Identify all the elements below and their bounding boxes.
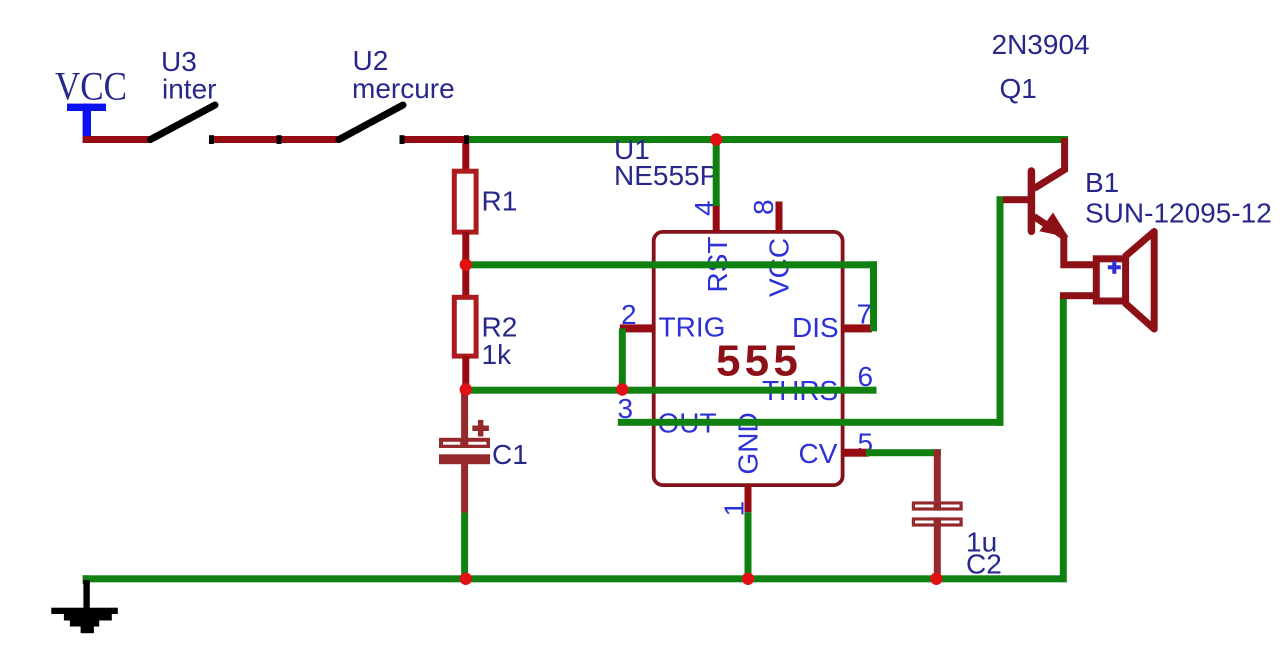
resistor R1 bottom lead (462, 232, 469, 265)
junction node R2-C1-THRS (460, 383, 472, 395)
pin 1 stub GND (745, 485, 752, 512)
svg-text:NE555P: NE555P (614, 160, 718, 191)
svg-text:VCC: VCC (55, 63, 127, 108)
wire DIS net (R1-R2 node to pin 7) (463, 261, 878, 268)
wire top rail green (R1 node to Q1 collector) (467, 136, 1068, 143)
svg-text:U3: U3 (161, 46, 197, 77)
wire top rail segment 1 (VCC to switch U3) (83, 136, 152, 143)
svg-text:C2: C2 (966, 549, 1002, 580)
wire ground corner nub (83, 575, 90, 584)
junction node pin4-VCC rail (710, 133, 722, 145)
capacitor C1 top plate (439, 438, 490, 448)
svg-text:TRIG: TRIG (659, 312, 726, 343)
capacitor C2 top plate (912, 501, 963, 510)
svg-text:R2: R2 (482, 312, 518, 343)
pin 4 stub (713, 204, 720, 232)
transistor Q1 emitter (1034, 217, 1094, 265)
junction node C1-ground rail (460, 573, 472, 585)
svg-text:Q1: Q1 (1000, 73, 1037, 104)
capacitor C1 bottom plate (439, 454, 490, 464)
svg-text:8: 8 (748, 199, 779, 215)
svg-text:1k: 1k (482, 339, 513, 370)
speaker B1 polarity plus (1108, 265, 1121, 269)
wire junction pin at R1 node (464, 135, 469, 144)
pin 5 stub CV (842, 449, 869, 457)
wire bottom ground rail (83, 575, 1064, 582)
svg-text:CV: CV (799, 438, 838, 469)
wire OUT net (pin 3 to Q1 base) (618, 419, 1004, 426)
transistor Q1 base lead (1003, 196, 1031, 203)
wire top rail segment 2 (U3 to U2) (209, 136, 340, 143)
pin 7 stub DIS (841, 324, 872, 332)
capacitor C2 bottom plate (912, 517, 963, 526)
switch U3 lever (151, 105, 216, 140)
resistor R2 (454, 297, 476, 356)
switch U3 terminal pin 2 (277, 135, 282, 144)
speaker B1 horn (1125, 232, 1155, 330)
junction node TRIG-THRS (616, 383, 628, 395)
svg-text:B1: B1 (1085, 167, 1119, 198)
switch U3 terminal pin (209, 135, 214, 144)
capacitor C2 bottom lead (934, 517, 941, 582)
switch U2 terminal pin (400, 135, 405, 144)
transistor Q1 collector (1034, 138, 1065, 189)
svg-text:2N3904: 2N3904 (992, 29, 1090, 60)
svg-text:C1: C1 (492, 439, 528, 470)
capacitor C1 bottom lead (461, 464, 468, 513)
wire right rail (speaker return) (1060, 296, 1067, 583)
wire TRIG vertical (619, 328, 626, 392)
ground symbol (51, 580, 118, 633)
junction node R1-R2-DIS (460, 259, 472, 271)
junction node pin1-ground rail (742, 573, 754, 585)
switch U2 lever (339, 105, 403, 140)
junction node C2-ground rail (930, 573, 942, 585)
wire pin 1 to ground rail (745, 512, 752, 582)
speaker B1 bottom lead (1060, 292, 1096, 299)
wire top rail segment 3 (U2 to R1 node) (400, 136, 469, 143)
wire THRS net (R2-C1 node to pin 6) (463, 387, 877, 394)
transistor Q1 base bar (1028, 171, 1036, 231)
speaker B1 box (1096, 259, 1125, 301)
svg-text:U2: U2 (353, 45, 389, 76)
capacitor C2 top lead (934, 449, 941, 501)
resistor R1 top lead (462, 136, 469, 170)
svg-text:R1: R1 (482, 186, 518, 217)
capacitor C1 top lead (461, 389, 468, 439)
pin 8 stub (776, 202, 783, 233)
transistor Q1 emitter arrow (1039, 213, 1068, 238)
resistor R2 bottom lead (462, 356, 469, 390)
svg-text:mercure: mercure (352, 73, 455, 104)
power symbol VCC (67, 104, 106, 138)
svg-text:inter: inter (162, 74, 216, 105)
IC U1 NE555P (555 timer) body (654, 232, 843, 485)
resistor R1 (454, 171, 476, 232)
resistor R2 top lead (462, 264, 469, 295)
svg-text:DIS: DIS (792, 312, 839, 343)
svg-text:SUN-12095-12: SUN-12095-12 (1085, 198, 1272, 229)
pin 2 stub TRIG (620, 324, 655, 332)
capacitor C1 polarity plus (472, 426, 489, 432)
wire CV net (pin 5 to C2) (866, 449, 941, 456)
